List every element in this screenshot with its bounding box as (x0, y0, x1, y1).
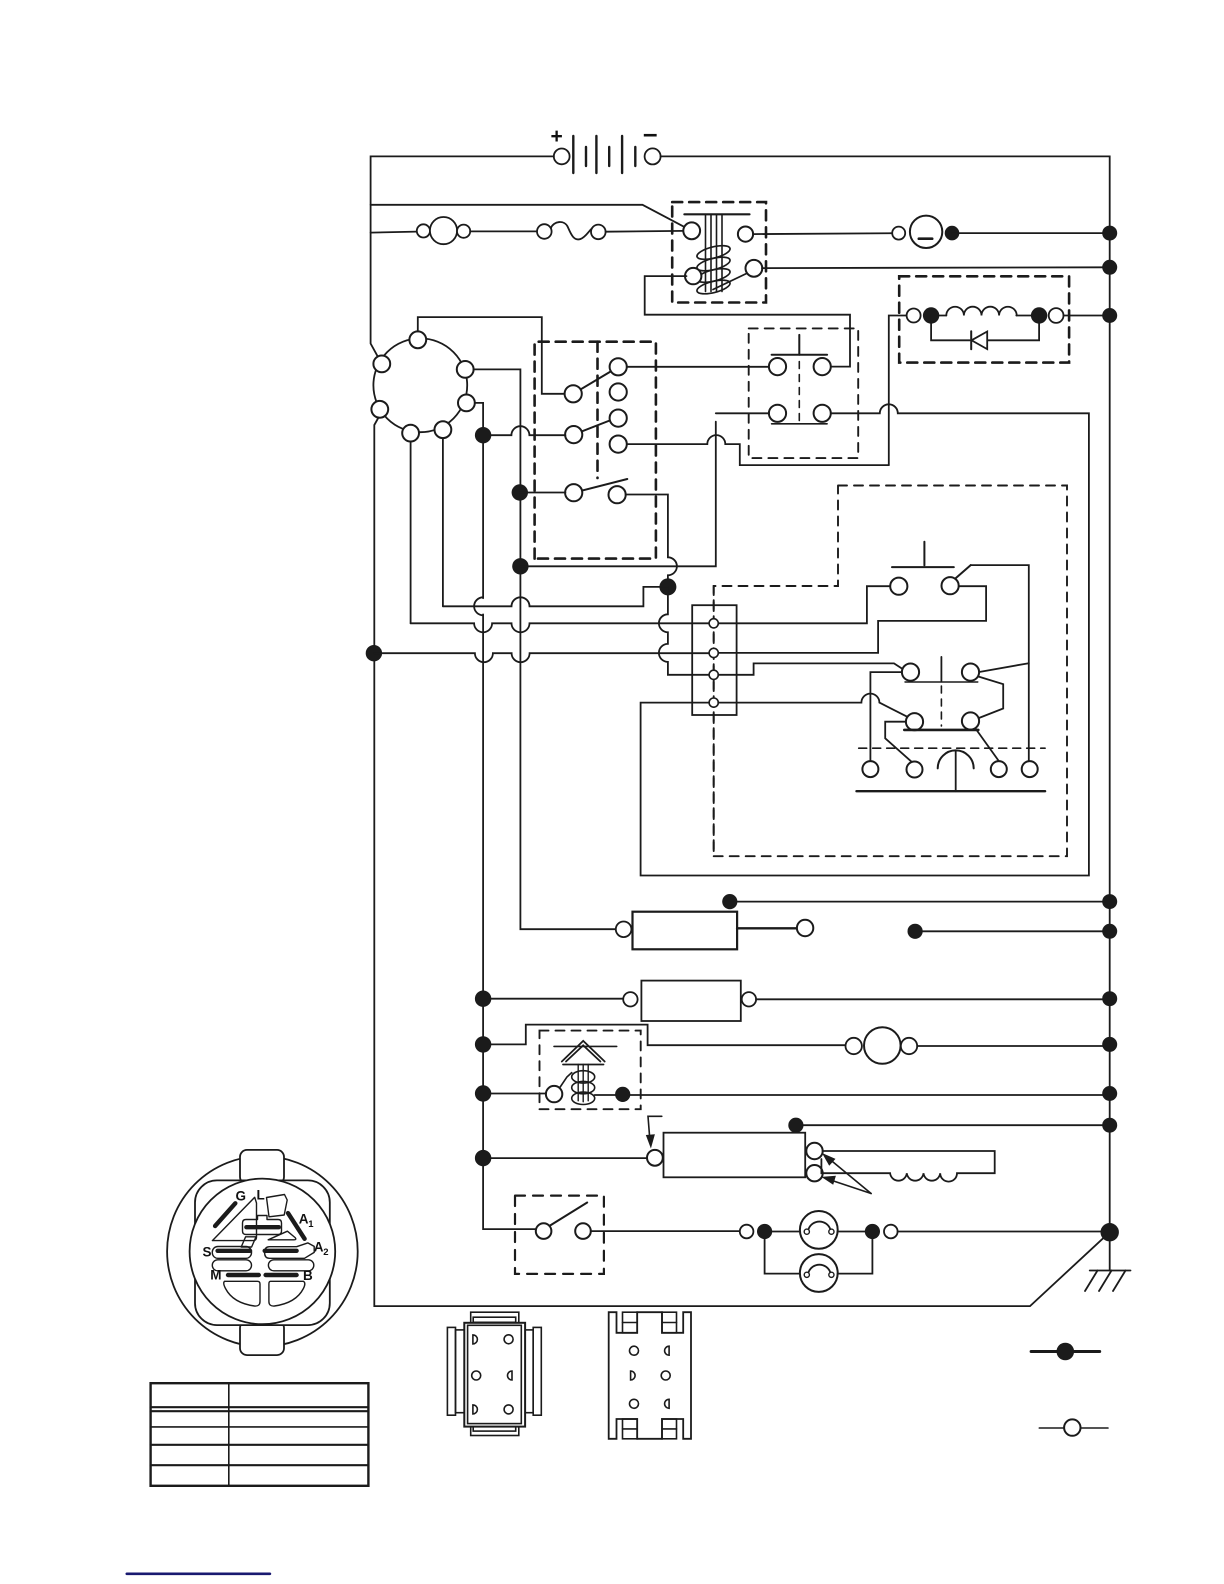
wire seat switch line (G bus to connector pin1 and seat) (411, 623, 710, 632)
wire interlock node down to connector pin 3 (with hops) (659, 587, 709, 675)
battery B1 (551, 118, 661, 173)
wire ROS lower left contact to probe 2 (885, 722, 911, 762)
6-pin connector B (rear view) (609, 1312, 691, 1439)
chassis ground symbol (1085, 1241, 1131, 1291)
legend solid connection symbol (1031, 1343, 1100, 1361)
wire M bus to connector pin2 and seat right (366, 645, 382, 661)
junction dot lamp return (865, 1224, 880, 1239)
wire pole2 contact to clutch vertical (with hop) (627, 435, 889, 465)
oil pressure sender (circle with side terminals) (846, 1027, 918, 1064)
row4 wire with jog over ignition unit (483, 1025, 845, 1046)
wire pole3 contact down to interlock dot (626, 495, 677, 587)
junction dot trunk at ammeter wire (1102, 226, 1117, 241)
key face terminal labels (203, 1188, 329, 1283)
wire brake lower right to ROS loop (around module) (641, 404, 1089, 875)
wire clutch to right trunk (1064, 315, 1110, 317)
terminal table (151, 1383, 369, 1486)
junction dot interlock node (659, 578, 676, 595)
junction dot A2 bus to brake switch (512, 558, 528, 574)
wire interlock node to key A1 bus (443, 587, 668, 606)
wire brake lower left to A2 line (716, 412, 769, 414)
wire clutch to interlock (down left side) (889, 316, 907, 466)
brake switch plunger (798, 335, 800, 355)
headlamp 1 (772, 1211, 865, 1249)
brake clutch pedal switch (dashed box) (749, 328, 859, 458)
pointer arrows to module terminals (821, 1153, 871, 1194)
wire pole3 common to A2 bus junction (512, 484, 528, 500)
brake switch lower contacts (769, 405, 831, 424)
6-pin connector A (rear view) (447, 1312, 541, 1435)
junction dot ammeter output (945, 226, 960, 241)
junction dot trunk at solenoid coil wire (1102, 260, 1117, 275)
legend open connection symbol (1039, 1419, 1108, 1435)
svg-text:L: L (257, 1188, 265, 1203)
key switch face (167, 1150, 358, 1355)
junction dot pole2 common on L bus (475, 427, 491, 443)
svg-text:B: B (303, 1268, 313, 1283)
reverse operation system module (large dashed box) (714, 486, 1067, 857)
junction dot chassis ground node (1101, 1223, 1119, 1241)
svg-text:2: 2 (323, 1247, 328, 1258)
engine control module (rectangle) (647, 1133, 823, 1182)
starter solenoid internals (683, 214, 762, 296)
wire battery positive to key switch B pin (371, 156, 554, 364)
wire branch to ROS upper right contact (979, 663, 1029, 672)
key face slots (thin outlines) (212, 1195, 314, 1307)
wire solenoid coil low side to brake switch (645, 276, 850, 367)
wire ROS lower right contact to probe 3 (976, 729, 999, 762)
footer rule (blue) (127, 1573, 270, 1576)
wire key A1 pin down (442, 438, 444, 606)
wire connector pin4 to ROS lower left contact (718, 694, 907, 717)
wire battery positive branch to starter solenoid post (diagonal) (371, 205, 692, 231)
hour meter module (rectangle) (623, 981, 756, 1021)
inline connector to lamps (740, 1225, 754, 1239)
key switch connector (circle with 7 pins) (371, 331, 474, 441)
svg-text:–: – (643, 118, 657, 148)
junction dot trunk at clutch wire (1102, 308, 1117, 323)
svg-text:+: + (551, 125, 563, 148)
electric clutch (dashed box) (899, 276, 1069, 362)
light switch (dashed box) (515, 1196, 604, 1274)
starter solenoid (dashed box) (672, 202, 766, 302)
brake switch upper contacts (769, 358, 831, 375)
wire seat switch to ROS common (down right side) (971, 565, 1029, 761)
inline connector lamp return (884, 1225, 898, 1239)
svg-text:G: G (236, 1188, 247, 1203)
row6 stub wire to trunk (796, 1124, 1110, 1126)
wire lamps to ground trunk (898, 1231, 1110, 1233)
4-pin interlock connector (692, 586, 736, 856)
wire pole2 common to L bus junction (483, 426, 565, 435)
row1 wire relay to trunk (730, 901, 1110, 903)
wire pole1 contact to brake switch (627, 366, 770, 368)
wire light switch to lamps (591, 1230, 740, 1232)
svg-text:S: S (203, 1245, 212, 1260)
row3 wire L bus to trunk (483, 998, 623, 1000)
hop of A1 wire over L bus (474, 597, 483, 615)
wire key S pin up and over to switch box (418, 317, 565, 394)
svg-text:A: A (314, 1240, 324, 1255)
wire connector pin3 to ROS upper left contact (718, 663, 901, 674)
wire key G pin down to seat line (410, 442, 412, 624)
alternator coil (rectangle with winding) (821, 1151, 994, 1182)
fuse F1 (537, 222, 606, 239)
wire ROS upper right to lower right contact (zigzag) (978, 677, 1003, 719)
key switch pole 1 (S) (565, 358, 627, 402)
ignition unit (dashed box) (540, 1031, 641, 1110)
svg-text:1: 1 (308, 1219, 314, 1230)
ammeter M1 (892, 216, 942, 248)
wire battery negative to right trunk and down (661, 156, 1110, 1232)
ROS key rotor (857, 748, 1046, 791)
row7 wire L bus to engine module (483, 1157, 647, 1159)
junction dot lamp feed (757, 1224, 772, 1239)
key face contact bars (bold) (215, 1203, 305, 1275)
key switch contacts (dashed box) (535, 342, 656, 559)
headlamp 2 (parallel) (765, 1239, 873, 1292)
wire ammeter to right trunk (952, 232, 1110, 234)
ROS switch upper pair (902, 657, 979, 682)
wire fuse to solenoid post (606, 230, 684, 233)
row2 stub wire to trunk (915, 930, 1110, 932)
wire connector to fuse (470, 230, 537, 232)
row5 wire L bus to ignition unit to trunk (483, 1093, 546, 1095)
clutch internals: coil and diode (907, 307, 1064, 350)
wire key A2 pin to vertical bus (474, 369, 616, 929)
wire A2 bus to brake switch lower contact (520, 422, 715, 567)
key switch pole 3 (565, 479, 627, 503)
fuel solenoid module (rectangle) (616, 912, 814, 950)
ROS switch lower pair (904, 686, 979, 730)
light switch contacts (536, 1203, 591, 1239)
inline connector J1 (417, 217, 470, 244)
spark plug symbol (546, 1041, 617, 1105)
wire solenoid to ammeter (753, 232, 892, 235)
seat switch (890, 542, 971, 595)
wire key M pin down to chassis border (374, 418, 1109, 1307)
svg-text:M: M (210, 1268, 221, 1283)
pointer arrow to module terminal (646, 1116, 662, 1148)
wire ROS upper left contact to probe 1 (870, 672, 902, 761)
key switch pole 2 (A) (565, 410, 627, 453)
wire battery positive branch to inline connector and fuse (371, 232, 417, 233)
wire key L pin to vertical bus (475, 403, 537, 1229)
svg-text:A: A (299, 1212, 309, 1227)
wire solenoid coil to right trunk (762, 266, 1110, 269)
